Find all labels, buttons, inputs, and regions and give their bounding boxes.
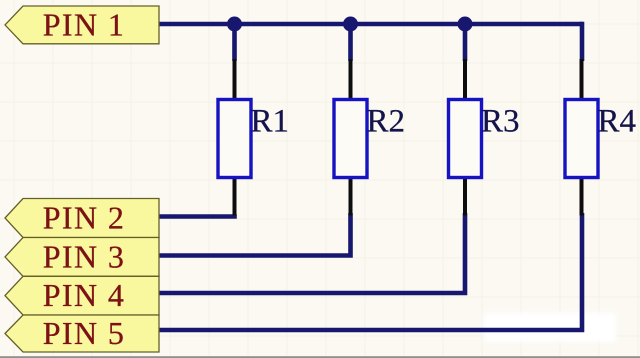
wire from PIN 2 to R1 bottom pin <box>159 214 237 219</box>
wire vertical drop from rail to R1 top pin <box>232 24 237 61</box>
port PIN 5 <box>5 315 159 352</box>
svg-text:R1: R1 <box>251 104 290 140</box>
resistor R4 <box>565 59 636 216</box>
port PIN 3 <box>5 238 159 277</box>
svg-text:PIN 3: PIN 3 <box>43 238 126 274</box>
resistor R2 <box>334 59 405 216</box>
svg-text:PIN 4: PIN 4 <box>43 277 126 313</box>
wire vertical drop from rail to R2 top pin <box>348 24 353 61</box>
junction dot at rail and R3 <box>458 17 473 32</box>
port PIN 2 <box>5 199 159 238</box>
svg-text:PIN 1: PIN 1 <box>43 6 126 42</box>
junction dot at rail and R2 <box>343 17 358 32</box>
svg-text:PIN 2: PIN 2 <box>43 199 126 235</box>
wire corner from rail down to R4 top pin <box>580 22 585 61</box>
port PIN 4 <box>5 276 159 315</box>
wire from PIN 5 to R4 bottom pin <box>159 213 582 330</box>
svg-text:PIN 5: PIN 5 <box>43 315 126 351</box>
resistor R1 <box>218 59 289 216</box>
wire vertical drop from rail to R3 top pin <box>463 24 468 61</box>
wire from PIN 4 to R3 bottom pin <box>159 213 465 293</box>
wire from PIN 3 to R2 bottom pin <box>159 213 351 256</box>
svg-text:R2: R2 <box>367 104 406 140</box>
port PIN 1 <box>5 6 159 44</box>
wire top rail from PIN 1 to corner above R4 <box>159 22 582 27</box>
resistor R3 <box>449 59 520 216</box>
svg-text:R3: R3 <box>481 104 520 140</box>
svg-text:R4: R4 <box>598 104 637 140</box>
junction dot at rail and R1 <box>227 17 242 32</box>
